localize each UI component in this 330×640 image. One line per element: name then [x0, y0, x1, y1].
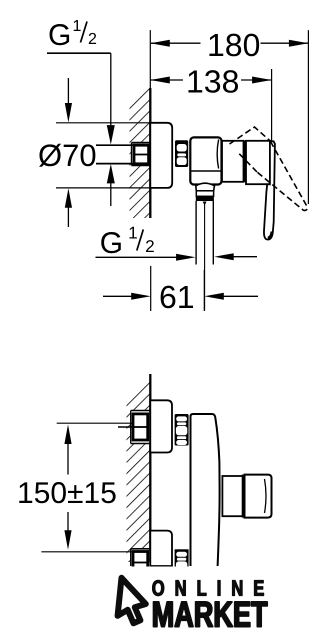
recess boxes white [131, 411, 151, 443]
outlet dome + bands (top view) [196, 183, 215, 201]
main body (top view) [190, 137, 221, 184]
top connection: escutcheon [150, 400, 172, 452]
shower hose pipe (top view) [196, 201, 213, 311]
dia 70 dimension [39, 78, 150, 227]
wall (hatched) bottom view [127, 374, 151, 566]
bottom connection: hex nut [133, 552, 148, 572]
wall recess white box [131, 142, 150, 166]
supply pipe (top view) [96, 145, 133, 163]
knob cap [245, 475, 272, 518]
lever dashed (open position) [230, 127, 307, 210]
top connection: S-union nut [175, 414, 189, 446]
adapter block (top view) [222, 141, 244, 182]
G1/2 leader arrows [107, 53, 115, 206]
180 dimension [150, 30, 308, 204]
bottom connection: recess box [131, 548, 151, 550]
knob neck [222, 476, 243, 516]
top connection: hex nut [133, 414, 148, 440]
61 dimension [103, 266, 258, 311]
MARKET text [154, 602, 268, 627]
joint band (black) [243, 141, 246, 183]
bottom connection: escutcheon [150, 531, 172, 566]
top connection: recess box [131, 411, 151, 444]
top connection: pipe stub [118, 426, 133, 428]
wall (hatched) top view [130, 88, 151, 218]
bottom connection: S-union nut [175, 549, 189, 570]
G 1/2 label (top) [47, 20, 111, 53]
body flask (bottom view) [191, 414, 220, 566]
wall surface line [149, 88, 151, 218]
ONLINE text [152, 580, 263, 596]
G 1/2 label (second) [96, 227, 258, 261]
S-union hex nut (top view) [175, 140, 188, 167]
150±15 dimension [19, 423, 134, 552]
cursor icon [118, 578, 146, 624]
hex nut in wall (top view) [134, 145, 149, 164]
138 dimension [150, 69, 271, 141]
escutcheon (top view) [150, 123, 172, 188]
lever blade (solid) [264, 141, 275, 239]
lever hub [246, 141, 270, 184]
